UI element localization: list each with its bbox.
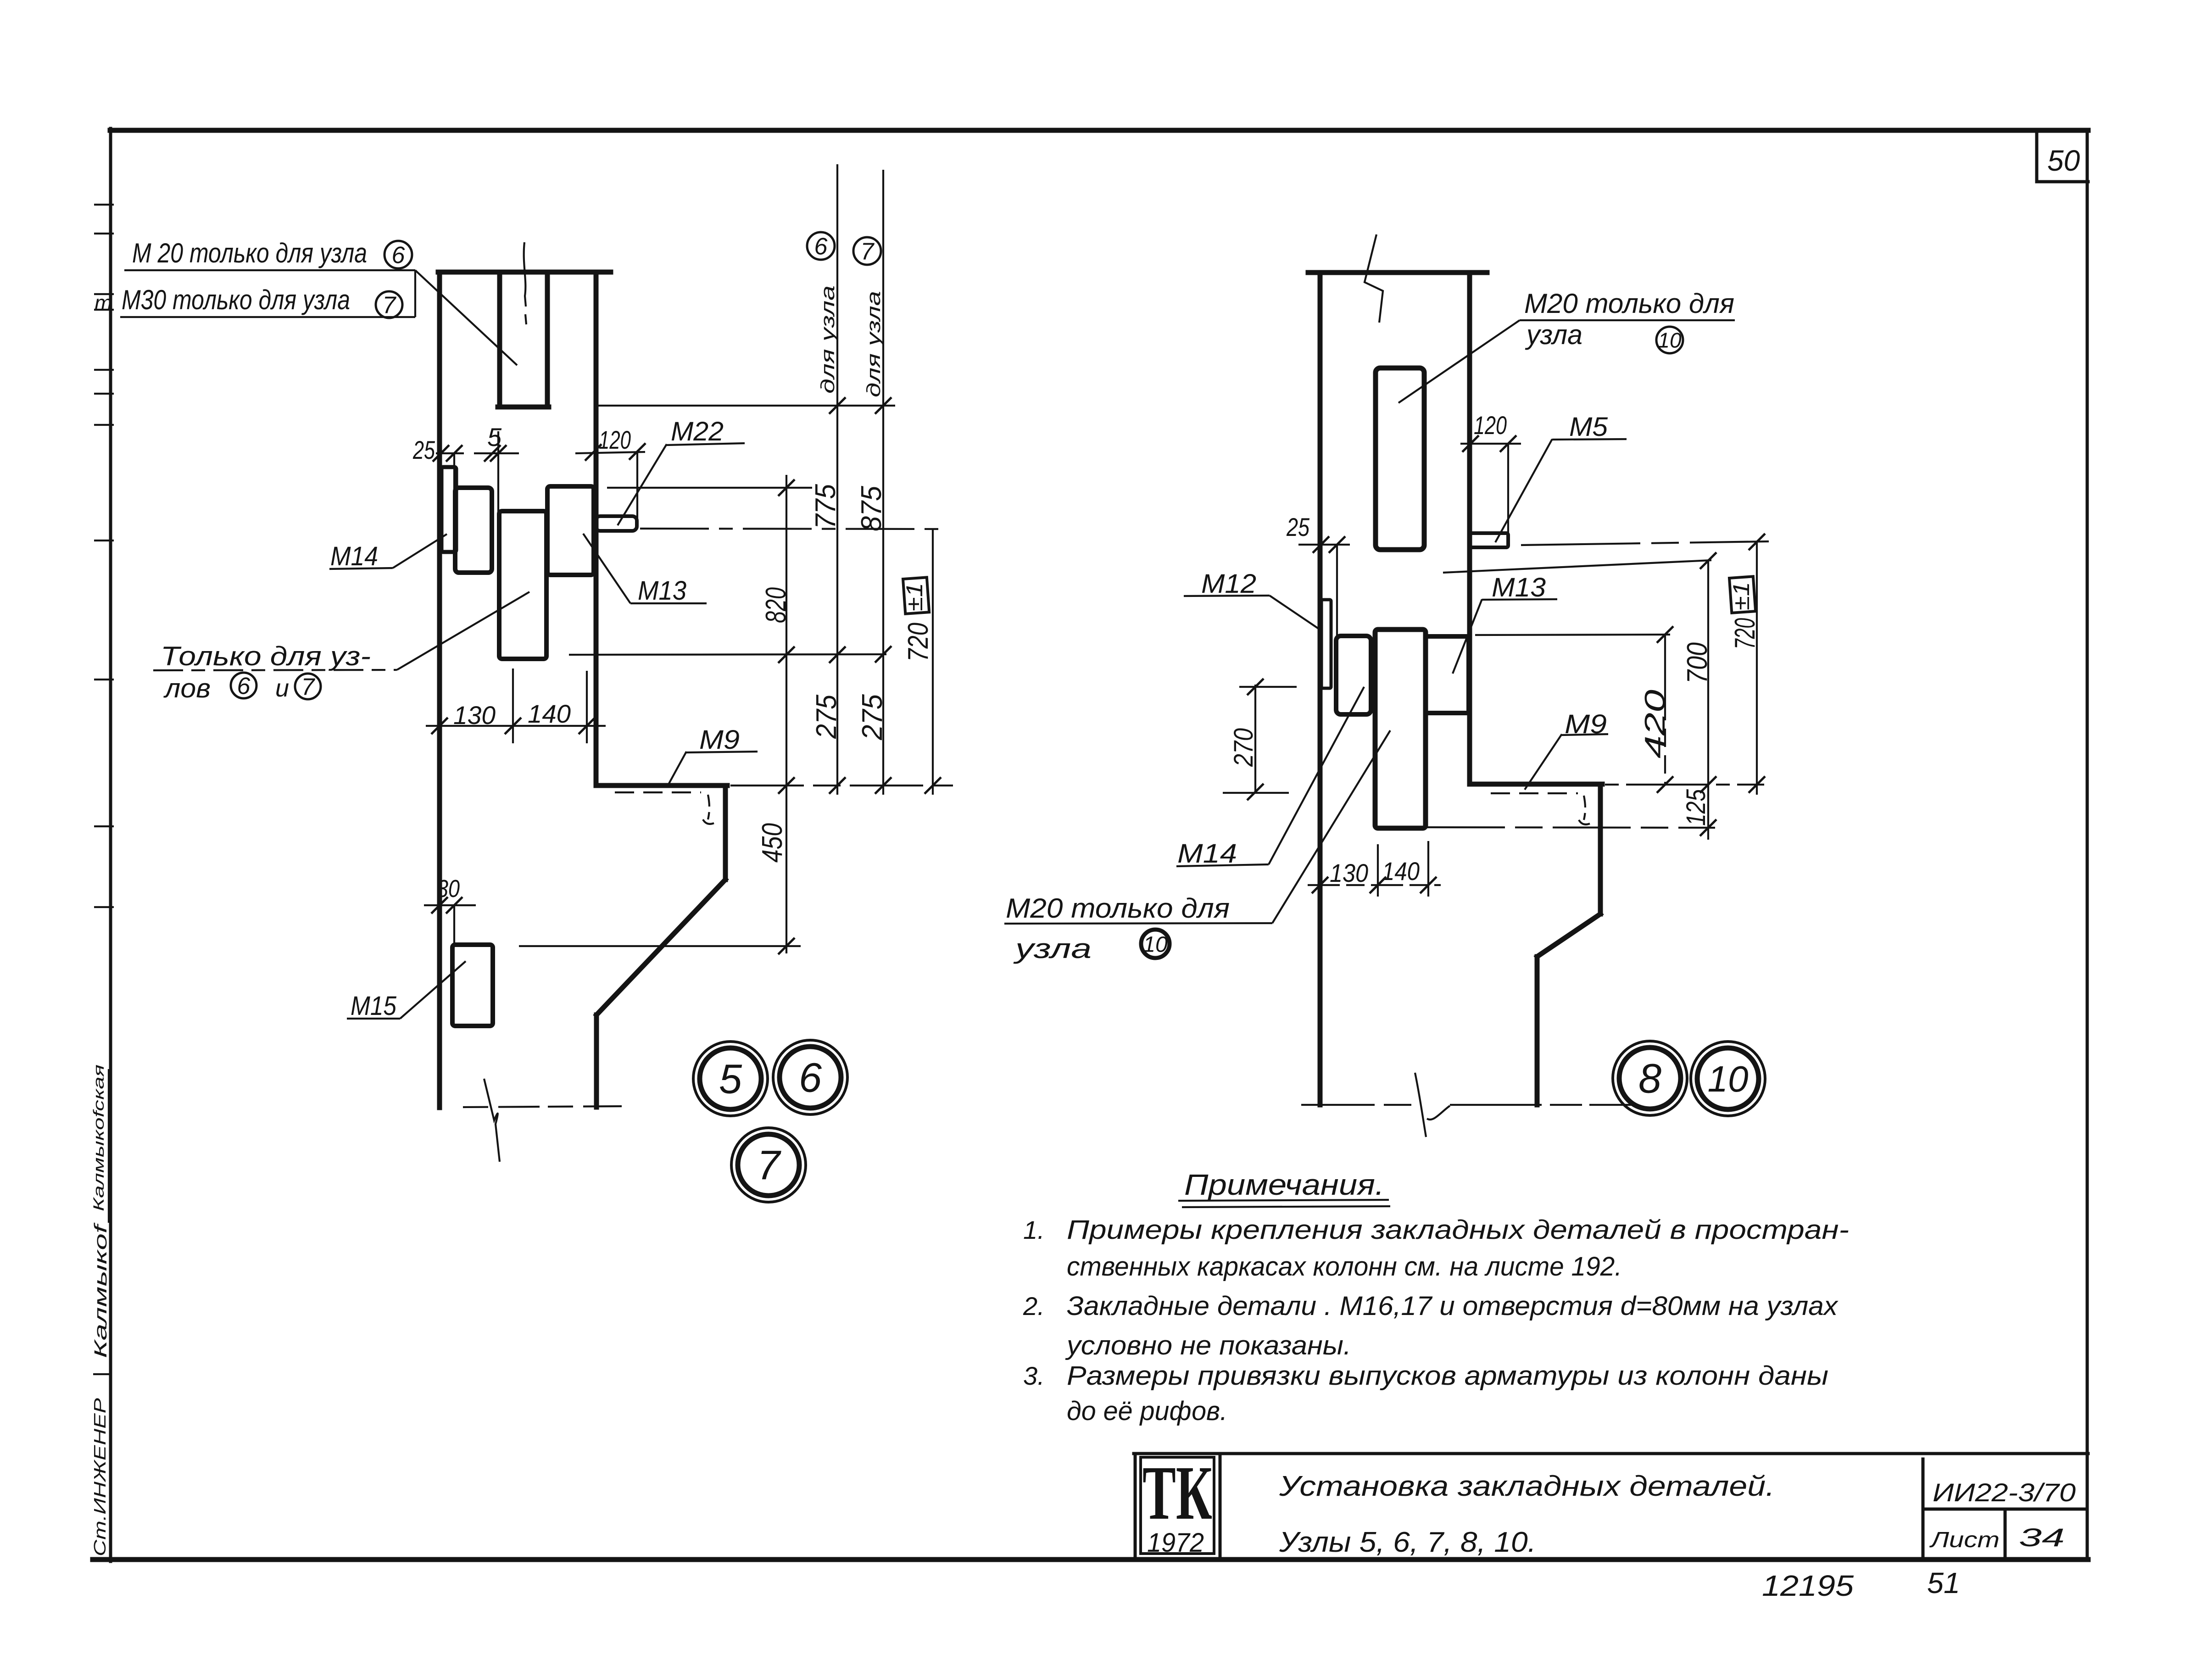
dimension row 130 / 140 (right fig)	[1308, 841, 1441, 897]
svg-text:Примеры крепления закладн: Примеры крепления закладных деталей в пр…	[1067, 1215, 1849, 1245]
detail circles 5 6 7	[693, 1040, 847, 1202]
svg-text:М14: М14	[330, 541, 378, 571]
svg-text:ИИ22-3/70: ИИ22-3/70	[1933, 1478, 2076, 1507]
notes heading	[1178, 1168, 1390, 1207]
svg-text:для узла: для узла	[817, 285, 838, 394]
left column notch	[498, 273, 549, 407]
svg-text:6: 6	[237, 673, 251, 700]
svg-text:2.: 2.	[1023, 1292, 1045, 1320]
right column top break mark	[1365, 234, 1383, 323]
label M20 only for node 10 (top)	[1399, 288, 1735, 403]
svg-text:6: 6	[392, 242, 405, 269]
svg-text:М13: М13	[638, 576, 686, 606]
left column top break mark	[524, 242, 526, 324]
svg-text:270: 270	[1229, 728, 1259, 767]
svg-text:Только для уз-: Только для уз-	[161, 641, 371, 671]
svg-text:Закладные детали . М16,17 и: Закладные детали . М16,17 и отверстия d=…	[1067, 1291, 1839, 1321]
extension line at console top	[730, 777, 953, 794]
svg-text:12195: 12195	[1762, 1569, 1854, 1602]
plate M13 (right)	[1426, 636, 1469, 713]
svg-text:т: т	[95, 291, 112, 315]
svg-text:1972: 1972	[1147, 1528, 1204, 1558]
dimension 270	[1223, 679, 1297, 800]
svg-text:7: 7	[383, 292, 397, 319]
label M5	[1495, 412, 1627, 542]
extension at 700 top	[1443, 552, 1716, 573]
extension line at notch bottom level	[596, 397, 895, 414]
dimension 30	[424, 875, 476, 945]
svg-text:275: 275	[857, 694, 888, 741]
plate M14	[455, 488, 492, 573]
svg-text:М5: М5	[1569, 412, 1608, 442]
dimension line 700	[1682, 561, 1713, 840]
stub M5	[1470, 533, 1508, 547]
svg-text:Калмыкоf: Калмыкоf	[91, 1222, 111, 1358]
svg-text:140: 140	[528, 699, 571, 728]
svg-text:420: 420	[1639, 690, 1671, 758]
svg-text:ственных каркасах колонн см: ственных каркасах колонн см. на листе 19…	[1067, 1252, 1622, 1281]
dimension line node 6 (775 / 275)	[807, 164, 842, 795]
detail circles 8 10	[1613, 1041, 1765, 1116]
svg-text:130: 130	[453, 701, 496, 730]
extension at console top (right)	[1605, 776, 1765, 793]
label M15	[347, 961, 466, 1021]
svg-text:М15: М15	[351, 991, 397, 1021]
svg-text:Размеры привязки выпусков а: Размеры привязки выпусков арматуры из ко…	[1067, 1361, 1828, 1391]
dimension row 25 / 5 / 120	[412, 423, 646, 524]
svg-text:узла: узла	[1013, 933, 1092, 964]
svg-text:Калмыкоfская: Калмыкоfская	[90, 1064, 107, 1211]
svg-text:450: 450	[757, 823, 788, 863]
note 1	[1023, 1215, 1849, 1281]
svg-text:Примечания.: Примечания.	[1184, 1168, 1384, 1201]
handwritten numbers below	[1762, 1566, 1960, 1602]
border frame	[93, 128, 2088, 1561]
svg-text:и: и	[275, 674, 289, 702]
svg-text:50: 50	[2047, 144, 2080, 177]
svg-text:М20 только для: М20 только для	[1524, 288, 1734, 319]
label M13 (right)	[1453, 573, 1557, 674]
svg-text:3.: 3.	[1023, 1361, 1045, 1390]
svg-text:условно не показаны.: условно не показаны.	[1065, 1331, 1351, 1360]
svg-text:120: 120	[1474, 411, 1507, 440]
svg-text:для узла: для узла	[863, 291, 884, 397]
svg-text:130: 130	[1330, 858, 1368, 887]
label M12	[1184, 569, 1319, 629]
svg-text:лов: лов	[163, 674, 211, 703]
title block	[1134, 1454, 2088, 1560]
svg-text:Установка закладных детале: Установка закладных деталей.	[1279, 1471, 1775, 1502]
svg-text:до её рифов.: до её рифов.	[1067, 1396, 1227, 1426]
svg-text:Узлы 5, 6, 7, 8, 10.: Узлы 5, 6, 7, 8, 10.	[1279, 1527, 1536, 1558]
left column bottom break line	[463, 1079, 622, 1162]
svg-text:М20 только для: М20 только для	[1006, 893, 1230, 924]
label M30 only for node 7	[120, 270, 517, 365]
note 2	[1023, 1291, 1839, 1360]
label M22	[618, 417, 745, 525]
dimension 25 (right)	[1286, 513, 1350, 638]
dimension 120 (right)	[1460, 411, 1521, 544]
svg-text:51: 51	[1927, 1566, 1960, 1599]
svg-text:М14: М14	[1177, 839, 1237, 869]
svg-text:М 20 только для узла: М 20 только для узла	[132, 238, 367, 268]
svg-text:узла: узла	[1525, 319, 1582, 350]
label M9 (left)	[668, 725, 758, 786]
label Only for nodes 6 and 7	[153, 592, 529, 703]
middle plate (only for nodes 6,7)	[499, 511, 546, 659]
svg-text:120: 120	[599, 425, 631, 454]
svg-text:30: 30	[437, 875, 460, 903]
svg-text:±1: ±1	[902, 583, 927, 611]
svg-text:6: 6	[814, 234, 828, 260]
svg-text:140: 140	[1382, 857, 1420, 886]
dimension line 820 / 450	[757, 475, 792, 953]
svg-text:М12: М12	[1201, 569, 1256, 599]
svg-text:М22: М22	[671, 417, 724, 446]
plate M13	[547, 486, 594, 575]
svg-text:М13: М13	[1492, 573, 1546, 602]
left column outline	[438, 272, 727, 1108]
dimension line node 7 (875 / 275)	[853, 170, 888, 795]
console anchor M9 dashed	[615, 792, 714, 824]
TK logo	[1142, 1450, 1212, 1558]
svg-text:5: 5	[487, 423, 502, 451]
svg-text:М30 только для узла: М30 только для узла	[122, 284, 350, 315]
plate M14 thin strip	[441, 467, 456, 552]
svg-text:6: 6	[799, 1055, 822, 1101]
extension line at middle plate bottom	[569, 646, 891, 663]
left margin vertical signatures	[90, 1064, 111, 1556]
svg-text:775: 775	[810, 484, 841, 529]
extension line 450 bottom	[519, 938, 801, 954]
svg-text:±1: ±1	[1728, 582, 1754, 610]
plate M20 (node 10)	[1376, 368, 1424, 550]
svg-text:Ст.ИНЖЕНЕР: Ст.ИНЖЕНЕР	[90, 1398, 109, 1556]
svg-text:8: 8	[1638, 1056, 1661, 1102]
svg-text:25: 25	[1286, 513, 1309, 541]
left margin fold ticks	[94, 205, 114, 907]
dimension line 420	[1639, 635, 1671, 785]
extension line at M13 top level	[607, 479, 812, 496]
note 3	[1023, 1361, 1828, 1426]
sheet number box 50	[2037, 130, 2088, 182]
extension at M5 level (720 top)	[1521, 534, 1769, 550]
svg-text:720: 720	[903, 623, 934, 662]
svg-text:7: 7	[757, 1143, 781, 1189]
label M13 (left)	[583, 534, 707, 606]
plate M15	[452, 945, 493, 1026]
svg-text:М9: М9	[699, 725, 740, 755]
svg-text:7: 7	[301, 674, 316, 701]
svg-text:125: 125	[1681, 789, 1711, 826]
extension at 125 bottom	[1427, 819, 1716, 836]
svg-text:5: 5	[719, 1057, 742, 1103]
svg-text:7: 7	[861, 239, 875, 265]
right column outline	[1308, 273, 1602, 1105]
svg-text:10: 10	[1708, 1059, 1749, 1099]
svg-text:34: 34	[2019, 1523, 2065, 1552]
svg-text:ТК: ТК	[1142, 1450, 1212, 1536]
svg-text:875: 875	[856, 486, 887, 531]
stub M22	[596, 516, 637, 531]
label M14 (right)	[1176, 687, 1364, 869]
plate M12	[1321, 600, 1331, 688]
center line through M22	[640, 529, 938, 529]
label M20 only for node 10 (bottom)	[1004, 730, 1390, 964]
svg-text:275: 275	[811, 695, 842, 739]
extension at M13 top (420 top)	[1475, 626, 1673, 643]
dimension line 720 (right)	[1728, 542, 1761, 795]
svg-text:820: 820	[760, 587, 792, 623]
svg-text:1.: 1.	[1023, 1215, 1045, 1244]
middle plate (right fig)	[1375, 630, 1426, 828]
dimension row 130 / 140 (left fig)	[426, 669, 606, 743]
plate M14 (right)	[1336, 636, 1371, 714]
label M14 (left)	[329, 534, 447, 571]
svg-text:25: 25	[412, 435, 435, 464]
dimension line 720 plus-minus 1	[902, 529, 934, 795]
label M9 (right)	[1525, 709, 1608, 790]
svg-text:700: 700	[1682, 642, 1713, 684]
svg-text:Лист: Лист	[1929, 1528, 2000, 1552]
svg-text:10: 10	[1658, 329, 1682, 352]
right column bottom break line	[1301, 1073, 1638, 1137]
console anchor M9 dashed (right)	[1491, 793, 1590, 825]
label M20 only for node 6	[124, 238, 415, 270]
svg-text:10: 10	[1143, 932, 1168, 957]
svg-text:720: 720	[1729, 618, 1761, 649]
title text	[1279, 1471, 1775, 1558]
